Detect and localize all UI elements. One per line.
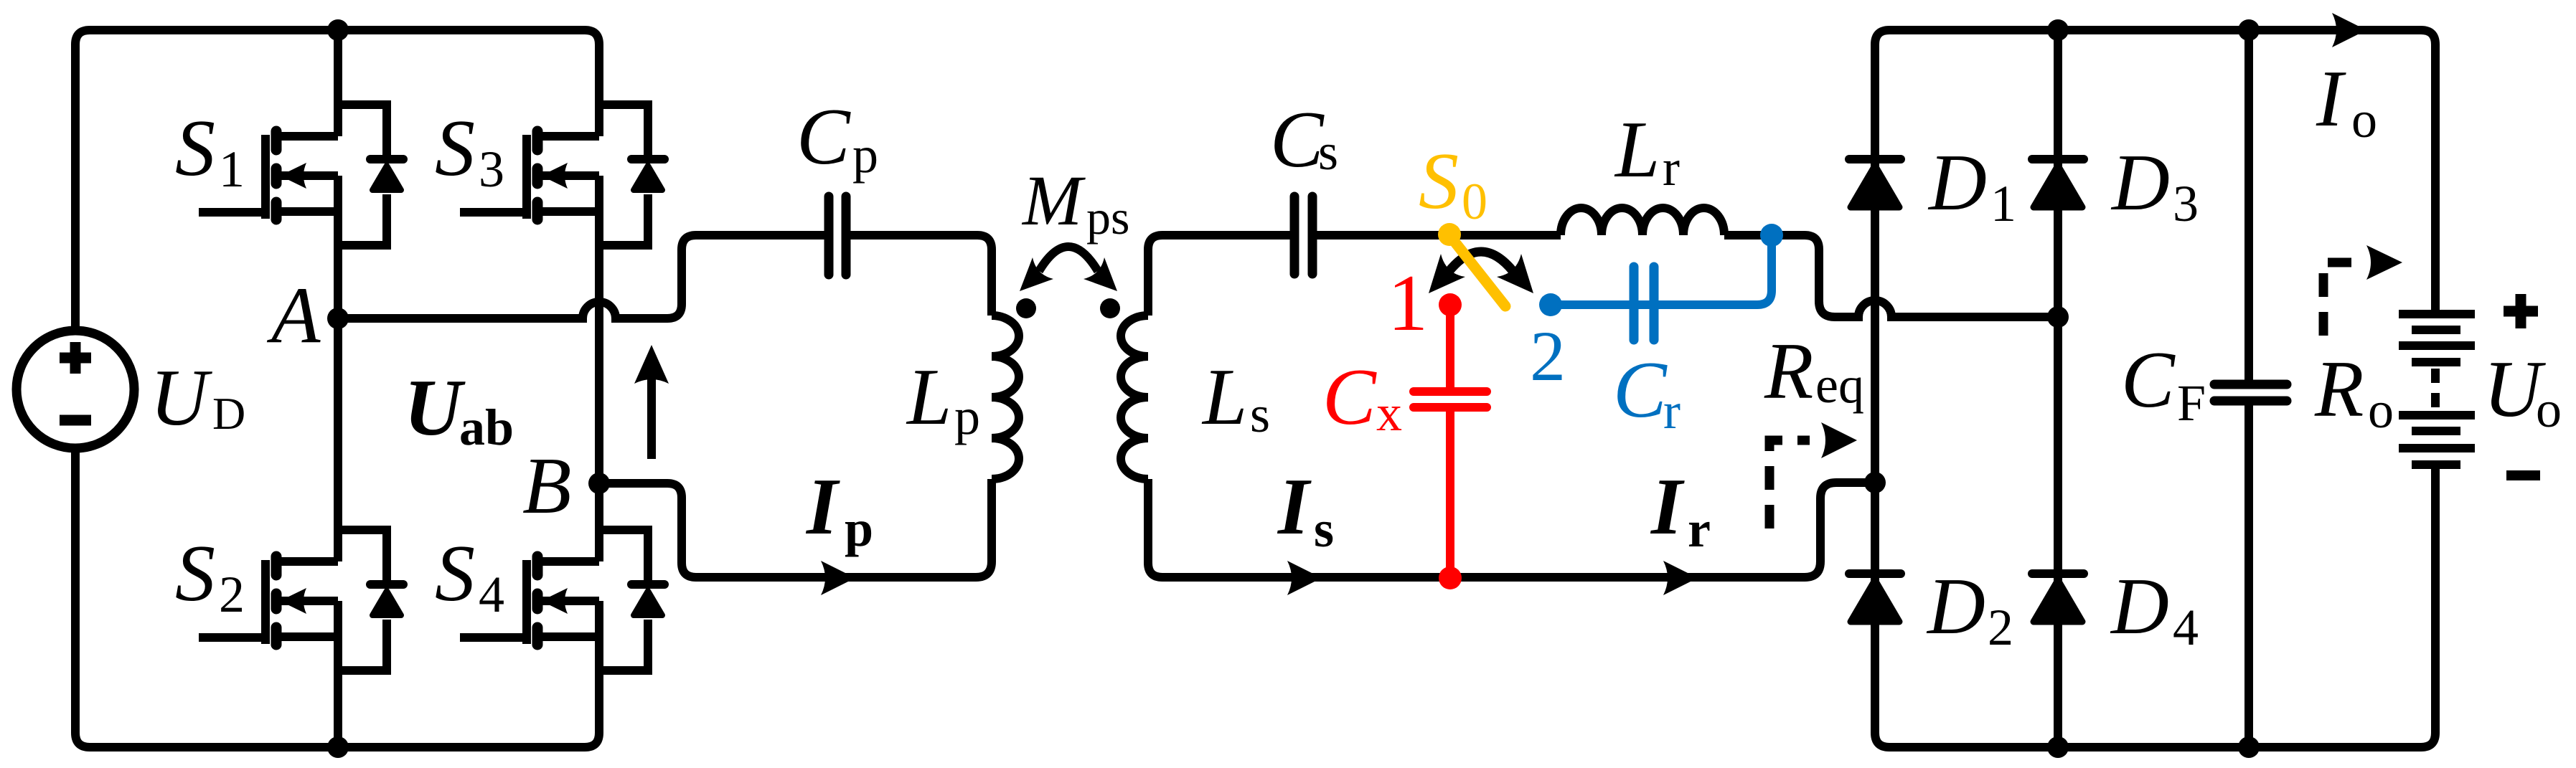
svg-text:C: C — [1270, 95, 1325, 184]
svg-text:R: R — [1764, 327, 1813, 416]
svg-text:F: F — [2177, 374, 2206, 432]
node rectifier top D3 junction — [2047, 19, 2069, 41]
svg-text:C: C — [2121, 336, 2176, 425]
node Cr top junction dot — [1760, 224, 1783, 247]
wire Ls top to Cs — [1148, 235, 1292, 316]
label S2 — [175, 529, 245, 623]
node A junction — [327, 308, 349, 329]
label D3 — [2110, 138, 2199, 232]
label Cr — [1613, 346, 1680, 440]
svg-text:D: D — [1927, 138, 1987, 227]
svg-text:2: 2 — [219, 566, 245, 623]
svg-text:L: L — [1614, 105, 1660, 194]
label Ip — [805, 463, 873, 557]
svg-text:I: I — [1650, 463, 1685, 551]
label Ls — [1201, 353, 1270, 443]
label Is — [1277, 463, 1334, 558]
source U_D circle — [17, 331, 134, 448]
svg-text:L: L — [1201, 353, 1247, 442]
label Cs — [1270, 95, 1338, 184]
svg-text:S: S — [175, 529, 215, 618]
node Lp winding dot — [1016, 298, 1036, 318]
label D2 — [1926, 562, 2013, 656]
battery Uo — [2399, 314, 2475, 465]
svg-text:I: I — [1277, 463, 1312, 551]
svg-text:3: 3 — [2173, 175, 2199, 232]
diode D1 — [1849, 159, 1901, 207]
node Cx bottom junction — [1439, 566, 1462, 589]
label UD — [150, 354, 245, 442]
wire rectifier bottom rail — [1889, 733, 2435, 747]
svg-text:p: p — [954, 388, 980, 445]
label Cp — [796, 93, 878, 184]
switch S0 rotation arc — [1429, 252, 1533, 293]
wire rectifier left rail — [1875, 30, 1889, 747]
node rectifier bottom CF junction — [2238, 736, 2260, 758]
label Ir — [1650, 463, 1711, 558]
source plus sign — [60, 342, 91, 374]
inductor Ls coil — [1121, 316, 1148, 479]
label S4 — [435, 529, 504, 623]
label D4 — [2110, 562, 2199, 656]
label Uo — [2483, 345, 2562, 438]
wire output right upper — [2431, 44, 2440, 310]
svg-text:I: I — [805, 463, 840, 551]
wire left bridge rail lower — [334, 601, 342, 747]
svg-text:2: 2 — [1988, 599, 2013, 656]
node 2 terminal dot — [1539, 293, 1562, 316]
wire source top — [71, 44, 80, 331]
node rectifier top CF junction — [2238, 19, 2260, 41]
svg-text:r: r — [1663, 139, 1680, 196]
svg-text:M: M — [1021, 161, 1086, 240]
svg-text:p: p — [845, 500, 873, 557]
node bottom rail junction — [327, 736, 349, 758]
svg-text:R: R — [2314, 345, 2364, 434]
svg-text:4: 4 — [2173, 599, 2199, 656]
wire top rail left — [75, 30, 599, 44]
wire CF rail upper — [2244, 30, 2253, 380]
svg-text:D: D — [1926, 562, 1985, 651]
capacitor Cx branch wire upper — [1446, 305, 1454, 388]
wire left bridge rail middle — [334, 176, 342, 561]
label Req — [1764, 327, 1864, 416]
label Uab — [404, 364, 514, 456]
wire right bridge rail lower — [595, 601, 603, 733]
svg-text:S: S — [175, 104, 215, 193]
svg-text:U: U — [404, 364, 466, 452]
wire Lr to rectifier input with hop over D1 rail — [1724, 235, 2058, 317]
label Cx — [1322, 353, 1402, 442]
capacitor Cp — [829, 196, 846, 275]
wire bottom rail left — [75, 733, 599, 747]
wire output right lower — [2431, 469, 2440, 733]
svg-text:U: U — [150, 354, 212, 442]
source minus sign — [60, 415, 91, 426]
svg-text:1: 1 — [1990, 175, 2016, 232]
svg-text:C: C — [1613, 346, 1668, 435]
wire CF rail lower — [2244, 405, 2253, 747]
label Mps — [1021, 161, 1129, 245]
node Ls winding dot — [1100, 298, 1120, 318]
label Ro — [2314, 345, 2394, 439]
wire rectifier top rail — [1889, 30, 2435, 44]
svg-text:I: I — [2316, 54, 2346, 143]
svg-text:B: B — [522, 442, 571, 531]
node rectifier bottom D4 junction — [2047, 736, 2069, 758]
svg-text:C: C — [796, 93, 851, 181]
wire node B to primary bottom and Lp riser — [599, 479, 992, 577]
battery plus sign — [2504, 294, 2538, 328]
svg-text:o: o — [2368, 381, 2394, 439]
node rectifier input left junction — [1864, 472, 1886, 493]
arrow Uab voltage — [634, 345, 669, 459]
node 1 terminal dot — [1439, 293, 1462, 316]
wire Cs to Lr — [1316, 231, 1561, 240]
svg-text:1: 1 — [219, 141, 245, 198]
svg-text:S: S — [435, 104, 475, 193]
battery minus sign — [2506, 470, 2540, 480]
svg-text:eq: eq — [1815, 356, 1864, 414]
svg-text:s: s — [1318, 123, 1338, 181]
switch S0 lever — [1449, 235, 1505, 306]
arrow Io current — [2332, 13, 2366, 47]
transistor S2 — [199, 530, 403, 670]
svg-text:x: x — [1376, 384, 1402, 442]
arrow Ir current — [1663, 561, 1698, 595]
capacitor Cr plates — [1634, 267, 1654, 340]
svg-text:C: C — [1322, 353, 1377, 442]
capacitor Cs — [1294, 196, 1312, 274]
svg-text:ab: ab — [459, 399, 514, 456]
arrow Is current — [1287, 561, 1322, 595]
arrow Ip current — [821, 561, 855, 595]
svg-text:0: 0 — [1462, 173, 1487, 230]
svg-text:D: D — [2110, 562, 2169, 651]
node B junction — [588, 473, 610, 494]
node rectifier input right junction — [2047, 306, 2069, 328]
diode D3 — [2032, 159, 2084, 207]
capacitor Cr wire — [1551, 245, 1772, 305]
transistor S4 — [460, 530, 664, 670]
svg-text:4: 4 — [479, 566, 504, 623]
wire source bottom — [71, 448, 80, 733]
transistor S3 — [460, 105, 664, 245]
wire left bridge rail upper — [334, 30, 342, 136]
label CF — [2121, 336, 2206, 432]
svg-text:s: s — [1250, 386, 1270, 443]
svg-text:r: r — [1663, 382, 1680, 440]
svg-text:r: r — [1688, 501, 1711, 558]
svg-text:A: A — [266, 271, 321, 360]
diode D4 — [2032, 574, 2084, 622]
wire Cp to Lp top — [850, 235, 992, 316]
transistor S1 — [199, 105, 403, 245]
label S0 — [1419, 137, 1487, 230]
label S1 — [175, 104, 245, 198]
capacitor CF plates — [2214, 384, 2287, 401]
svg-text:s: s — [1314, 501, 1334, 558]
diode D2 — [1849, 574, 1901, 622]
label Io — [2316, 54, 2377, 148]
svg-text:L: L — [906, 353, 951, 442]
svg-text:p: p — [852, 126, 878, 184]
svg-text:o: o — [2536, 381, 2562, 438]
svg-text:2: 2 — [1530, 316, 1566, 396]
svg-text:1: 1 — [1388, 259, 1428, 348]
label S3 — [435, 104, 504, 198]
inductor Lr coil — [1561, 208, 1724, 235]
node top rail junction — [327, 19, 349, 41]
svg-text:3: 3 — [479, 141, 504, 198]
wire right bridge rail middle — [595, 176, 603, 561]
svg-text:o: o — [2351, 91, 2377, 148]
coupling arc Mps — [1020, 247, 1117, 291]
wire D3 D4 rail — [2054, 30, 2062, 747]
label Lr — [1614, 105, 1680, 196]
wire Ls bottom secondary return to rectifier — [1148, 479, 1875, 577]
svg-text:S: S — [1419, 137, 1459, 226]
switch S0 pivot dot — [1438, 223, 1461, 246]
svg-text:ps: ps — [1086, 190, 1129, 245]
arrow Req dashed — [1769, 422, 1857, 528]
inductor Lp coil — [992, 316, 1019, 479]
svg-text:D: D — [212, 388, 245, 439]
label Lp — [906, 353, 980, 445]
svg-text:S: S — [435, 529, 475, 618]
capacitor Cx branch wire lower — [1446, 411, 1454, 578]
arrow Ro dashed — [2323, 245, 2402, 336]
svg-text:D: D — [2110, 138, 2170, 227]
wire node A to Cp with hop over right rail — [338, 235, 825, 318]
capacitor Cx plates — [1414, 392, 1487, 407]
label D1 — [1927, 138, 2016, 232]
wire right bridge rail upper — [595, 44, 603, 136]
